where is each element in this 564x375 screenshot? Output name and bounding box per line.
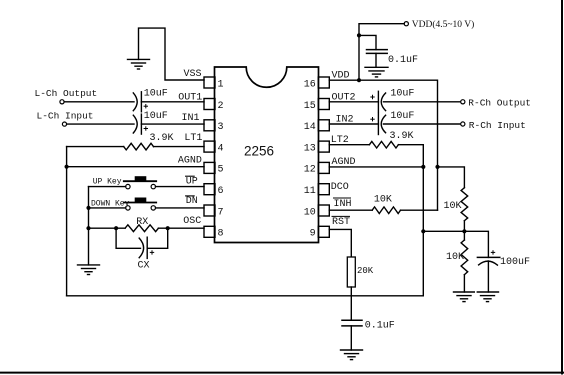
svg-text:11: 11 (304, 186, 316, 197)
svg-text:10uF: 10uF (144, 111, 168, 122)
plus mark of C3 (371, 95, 374, 98)
capacitor CX branch wires (116, 228, 168, 248)
svg-text:0.1uF: 0.1uF (388, 55, 418, 66)
IC U1 left pin boxes 1-8 (204, 77, 215, 237)
junction bias bus left (421, 229, 425, 233)
value label 10uF (C3) (390, 89, 414, 100)
svg-text:20K: 20K (357, 266, 374, 276)
svg-text:10K: 10K (374, 194, 392, 205)
svg-text:10uF: 10uF (390, 111, 414, 122)
capacitor 0.1uF (top) (367, 50, 388, 68)
ground (bottom 0.1uF) (341, 350, 363, 360)
svg-text:RST: RST (332, 217, 350, 228)
capacitor C4 10uF (IN2) (329, 114, 460, 135)
lower bias bus wire (423, 231, 488, 257)
pin numbers 1-8 (218, 79, 224, 239)
junction AGND left bus (65, 165, 69, 169)
svg-text:2256: 2256 (244, 144, 274, 159)
capacitor C3 10uF (OUT2) (329, 91, 460, 112)
pin name labels left: VSS OUT1 IN1 LT1 AGND UP DN OSC (178, 69, 203, 227)
pushbutton UP Key (124, 177, 156, 189)
svg-text:3.9K: 3.9K (390, 131, 414, 142)
svg-text:3.9K: 3.9K (150, 133, 174, 144)
junction VDD divider branch (435, 165, 439, 169)
junction OSC key bus (86, 226, 90, 230)
value label 10K (upper right) (444, 201, 462, 212)
svg-text:DOWN Key: DOWN Key (91, 200, 130, 209)
svg-text:7: 7 (218, 207, 224, 218)
IC U1 right pin boxes 16-9 (318, 77, 329, 237)
terminal L-Ch Input (37, 111, 94, 127)
terminal L-Ch Output (35, 88, 98, 104)
svg-text:10K: 10K (446, 252, 464, 263)
ground (lower 10K) (454, 292, 475, 302)
overline of UP (186, 175, 195, 177)
wire branch to 0.1uF (359, 35, 376, 49)
svg-text:RX: RX (136, 217, 148, 228)
svg-text:15: 15 (304, 101, 316, 112)
svg-text:10uF: 10uF (144, 89, 168, 100)
terminal R-Ch Input (461, 120, 526, 131)
overline of RST (332, 215, 350, 217)
capacitor CX (139, 237, 147, 258)
svg-text:UP Key: UP Key (93, 177, 122, 186)
border frame (right edge) (561, 0, 563, 374)
resistor 20K (347, 257, 355, 287)
resistor 10K (upper right) (461, 188, 468, 232)
label UP Key (93, 177, 122, 186)
junction bias bus 10K (462, 229, 466, 233)
value label 0.1uF (bottom) (365, 321, 395, 332)
value label 0.1uF (top) (388, 55, 418, 66)
overline of DN (186, 195, 195, 197)
label DOWN Key (91, 200, 130, 209)
capacitor C1 10uF (OUT1) (133, 92, 204, 112)
value label 10uF (C2) (144, 111, 168, 122)
svg-text:R-Ch Output: R-Ch Output (468, 98, 531, 109)
border frame (bottom edge) (0, 372, 563, 374)
junction VDD cap branch (357, 33, 361, 37)
resistor 10K (INH) (329, 207, 437, 214)
svg-text:OSC: OSC (183, 216, 201, 227)
wire L-Ch Input to C2 (67, 123, 134, 125)
svg-text:VDD(4.5~10 V): VDD(4.5~10 V) (412, 19, 475, 30)
svg-text:5: 5 (218, 165, 224, 176)
svg-text:6: 6 (218, 186, 224, 197)
plus mark of C1 (144, 105, 147, 108)
svg-text:14: 14 (304, 122, 316, 133)
ground (top 0.1uF) (365, 67, 388, 77)
svg-text:DCO: DCO (331, 182, 349, 193)
plus mark of C2 (144, 127, 147, 130)
resistor 3.9K (LT2) (329, 141, 423, 148)
svg-text:100uF: 100uF (500, 257, 530, 268)
svg-text:VSS: VSS (184, 69, 202, 80)
svg-text:IN1: IN1 (182, 113, 200, 124)
key bus vertical (88, 187, 90, 265)
plus mark of C4 (371, 118, 374, 121)
wire DOWN key to pin7 (156, 207, 205, 209)
svg-text:L-Ch Input: L-Ch Input (37, 111, 94, 122)
junction DOWN key bus (86, 206, 90, 210)
wire left AGND bus vertical (66, 147, 68, 296)
label RX (136, 217, 148, 228)
resistor 10K (lower right) (461, 231, 468, 292)
svg-text:CX: CX (138, 261, 150, 272)
ground (VSS) (128, 59, 150, 69)
resistor 3.9K (LT1) (67, 143, 204, 150)
svg-text:16: 16 (304, 79, 316, 90)
plus mark of CX (150, 251, 153, 254)
svg-text:1: 1 (218, 79, 224, 90)
svg-text:INH: INH (334, 199, 352, 210)
value label 10K (INH) (374, 194, 392, 205)
svg-text:9: 9 (310, 229, 316, 240)
pushbutton DOWN Key (124, 198, 156, 210)
resistor RX (125, 225, 158, 232)
svg-text:2: 2 (218, 101, 224, 112)
junction RX right (166, 226, 170, 230)
svg-text:UP: UP (186, 176, 198, 187)
pin numbers 16-9 (304, 79, 316, 239)
terminal R-Ch Output (461, 98, 531, 109)
VDD supply terminal (404, 19, 474, 30)
IC U1 body 2256 (215, 67, 319, 243)
wire AGND pin12 row (329, 166, 423, 168)
capacitor 100uF (477, 257, 499, 292)
value label 20K (357, 266, 374, 276)
value label 3.9K (LT1) (150, 133, 174, 144)
wire AGND pin5 (67, 166, 204, 168)
ground (key bus) (78, 265, 100, 275)
value label 10K (lower right) (446, 252, 464, 263)
wire VSS pin1 to ground (139, 28, 205, 80)
wire L-Ch Output to C1 (64, 101, 134, 103)
pin name labels right: VDD OUT2 IN2 LT2 AGND DCO INH RST (331, 71, 356, 229)
svg-text:10: 10 (304, 207, 316, 218)
svg-text:0.1uF: 0.1uF (365, 321, 395, 332)
junction RX left (114, 226, 118, 230)
svg-text:3: 3 (218, 122, 224, 133)
svg-text:10uF: 10uF (390, 89, 414, 100)
svg-text:13: 13 (304, 143, 316, 154)
plus mark of 100uF (491, 251, 494, 254)
svg-text:AGND: AGND (178, 156, 202, 167)
svg-text:DN: DN (186, 196, 198, 207)
capacitor 0.1uF (bottom) (342, 320, 362, 350)
wire VDD pin16 row (329, 80, 437, 210)
svg-text:12: 12 (304, 165, 316, 176)
wire OSC pin8 row (89, 227, 205, 229)
wire DOWN key to key bus (89, 207, 126, 209)
svg-text:4: 4 (218, 143, 224, 154)
value label 100uF (500, 257, 530, 268)
wire UP key to pin6 (156, 186, 205, 188)
wire UP key to key bus (89, 186, 126, 188)
ground (100uF) (477, 292, 498, 302)
bottom AGND bus wire (67, 295, 424, 297)
wire divider branch to 10K (438, 167, 465, 188)
wire 20K to 0.1uF (350, 287, 352, 320)
value label 10uF (C1) (144, 89, 168, 100)
svg-text:LT1: LT1 (184, 133, 202, 144)
wire LT2/AGND vertical (422, 145, 424, 296)
wire RST pin9 to 20K (329, 229, 351, 257)
junction AGND right (421, 165, 425, 169)
svg-text:L-Ch Output: L-Ch Output (35, 88, 98, 99)
svg-text:10K: 10K (444, 201, 462, 212)
label CX (138, 261, 150, 272)
junction VDD pin16 (357, 78, 361, 82)
overline of INH (334, 197, 351, 199)
svg-text:R-Ch Input: R-Ch Input (469, 120, 526, 131)
svg-text:8: 8 (218, 229, 224, 240)
capacitor C2 10uF (IN1) (133, 114, 204, 134)
wire VDD supply to pin16 (359, 24, 404, 80)
value label 3.9K (LT2) (390, 131, 414, 142)
value label 10uF (C4) (390, 111, 414, 122)
